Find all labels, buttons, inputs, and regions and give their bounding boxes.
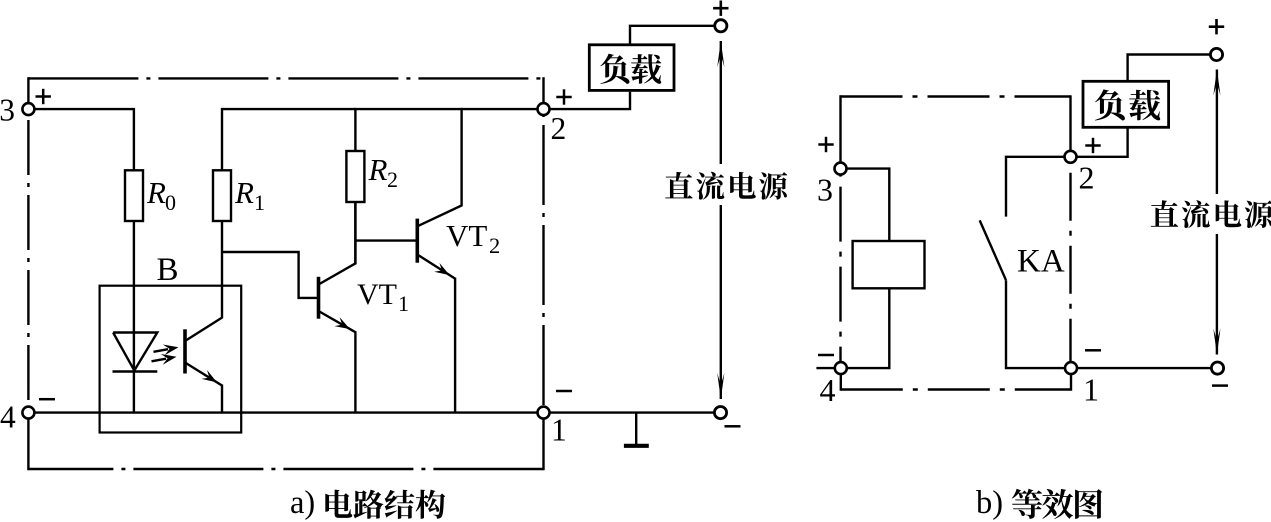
resistor R1 bbox=[213, 170, 231, 221]
SSR enclosure dash-dot border (circuit a) bbox=[28, 77, 543, 470]
terminal 3 (circuit b) bbox=[817, 163, 847, 208]
plus sign at terminal 3 bbox=[36, 89, 51, 104]
wire terminal2 to load (circuit b) bbox=[1077, 129, 1128, 157]
svg-text:3: 3 bbox=[0, 92, 15, 127]
switch KA blade bbox=[980, 220, 1006, 280]
DC label 直流电源 (circuit a) bbox=[662, 164, 794, 204]
minus sign at terminal 1 bbox=[556, 390, 572, 393]
wire terminal2 to load bbox=[550, 92, 631, 109]
wire terminal1 to DC- (circuit b) bbox=[1077, 367, 1212, 369]
label VT1 bbox=[357, 278, 409, 316]
transistor VT2 bar bbox=[415, 219, 419, 263]
transistor VT1 bar bbox=[317, 277, 321, 319]
minus sign at terminal 4 bbox=[39, 398, 55, 401]
plus sign terminal 3 (circuit b) bbox=[818, 137, 833, 152]
relay coil box bbox=[853, 241, 925, 288]
terminal 1 bbox=[538, 407, 567, 448]
svg-text:B: B bbox=[157, 252, 179, 288]
terminal 3 bbox=[0, 92, 34, 127]
svg-text:0: 0 bbox=[165, 190, 176, 215]
svg-text:2: 2 bbox=[387, 167, 398, 192]
phototransistor bar bbox=[183, 329, 187, 373]
phototransistor collector bbox=[185, 220, 222, 341]
svg-text:a): a) bbox=[290, 485, 315, 521]
label R1 bbox=[234, 175, 265, 215]
wire relay coil to terminal 4 bbox=[847, 288, 889, 368]
label R2 bbox=[368, 152, 399, 192]
wire terminal3 to R0 bbox=[34, 109, 133, 170]
bottom rail wire (terminal 4 to terminal 1) bbox=[34, 411, 537, 413]
wire terminal2 to switch bbox=[1006, 157, 1065, 217]
svg-text:2: 2 bbox=[1079, 160, 1095, 196]
plus sign DC+ (circuit b) bbox=[1209, 19, 1224, 34]
VT1 collector bbox=[319, 202, 356, 285]
DC+ terminal (circuit b) bbox=[1210, 48, 1222, 60]
terminal 2 bbox=[538, 103, 567, 146]
DC- terminal (circuit b) bbox=[1211, 362, 1223, 374]
load box (circuit b) bbox=[1083, 81, 1169, 127]
label VT2 bbox=[446, 218, 500, 258]
DC label 直流电源 (circuit b) bbox=[1147, 194, 1271, 234]
label KA bbox=[1017, 244, 1065, 280]
caption b bbox=[976, 485, 1102, 521]
plus sign DC+ (circuit a) bbox=[713, 0, 728, 15]
light arrow upper bbox=[154, 345, 179, 356]
minus sign terminal 4 (circuit b) bbox=[818, 354, 834, 357]
svg-text:R: R bbox=[234, 175, 254, 210]
svg-text:2: 2 bbox=[551, 111, 567, 146]
wire top rail (R1 corner to terminal 2) bbox=[222, 108, 544, 110]
wire load to DC+ (circuit b) bbox=[1128, 55, 1211, 83]
plus sign terminal 2 (circuit b) bbox=[1085, 138, 1100, 153]
svg-text:1: 1 bbox=[551, 412, 567, 447]
wire R0 to LED through diode to bottom rail bbox=[133, 220, 135, 413]
svg-text:R: R bbox=[368, 152, 388, 187]
wire terminal1 to DC- bbox=[550, 411, 715, 413]
VT2 emitter bbox=[417, 255, 455, 413]
minus sign DC- (circuit b) bbox=[1212, 384, 1228, 387]
light arrow lower bbox=[152, 354, 177, 365]
phototransistor emitter bbox=[185, 363, 222, 413]
wire VT2 base branch bbox=[355, 239, 416, 241]
wire R1 top bbox=[221, 108, 223, 170]
svg-text:KA: KA bbox=[1017, 244, 1065, 280]
label B bbox=[157, 252, 179, 288]
terminal 1 (circuit b) bbox=[1065, 362, 1099, 407]
terminal 4 bbox=[0, 399, 34, 434]
optocoupler LED bbox=[113, 333, 158, 372]
optocoupler B box bbox=[100, 286, 242, 433]
svg-text:R: R bbox=[146, 175, 166, 210]
minus sign DC- (circuit a) bbox=[725, 425, 741, 428]
wire switch to terminal 1 bbox=[1006, 280, 1065, 368]
svg-text:b): b) bbox=[976, 485, 1003, 521]
svg-text:4: 4 bbox=[0, 399, 16, 434]
svg-text:VT: VT bbox=[357, 278, 397, 311]
load box (circuit a) bbox=[589, 45, 674, 91]
resistor R2 bbox=[346, 151, 364, 202]
svg-text:1: 1 bbox=[398, 291, 409, 316]
wire R1 base branch bbox=[222, 252, 317, 298]
DC source arrow (circuit a) bbox=[717, 41, 724, 399]
plus sign at terminal 2 bbox=[556, 89, 571, 104]
svg-text:VT: VT bbox=[446, 218, 487, 253]
terminal 4 (circuit b) bbox=[816, 362, 846, 408]
SSR enclosure dash-dot border (circuit b) bbox=[841, 95, 1072, 390]
DC source arrow (circuit b) bbox=[1213, 70, 1220, 355]
label R0 bbox=[146, 175, 176, 215]
load label 负载 (circuit a) bbox=[600, 54, 661, 84]
svg-text:1: 1 bbox=[1083, 372, 1099, 408]
caption a bbox=[290, 485, 445, 521]
VT1 emitter bbox=[319, 311, 356, 413]
wire terminal3 to relay coil bbox=[847, 169, 890, 241]
VT2 collector bbox=[417, 108, 461, 226]
load label 负载 (circuit b) bbox=[1095, 89, 1160, 120]
svg-text:3: 3 bbox=[817, 172, 833, 208]
wire R2 bottom bbox=[354, 201, 356, 264]
DC- terminal (circuit a) bbox=[714, 407, 726, 419]
svg-text:1: 1 bbox=[254, 190, 265, 215]
svg-text:2: 2 bbox=[489, 233, 500, 258]
resistor R0 bbox=[125, 170, 143, 221]
svg-text:4: 4 bbox=[820, 372, 836, 408]
terminal 2 (circuit b) bbox=[1065, 151, 1095, 196]
minus sign terminal 1 (circuit b) bbox=[1085, 349, 1101, 352]
ground symbol bbox=[624, 413, 649, 446]
wire R2 top bbox=[354, 108, 356, 151]
wire load to DC+ bbox=[630, 26, 715, 46]
DC+ terminal (circuit a) bbox=[715, 20, 727, 32]
